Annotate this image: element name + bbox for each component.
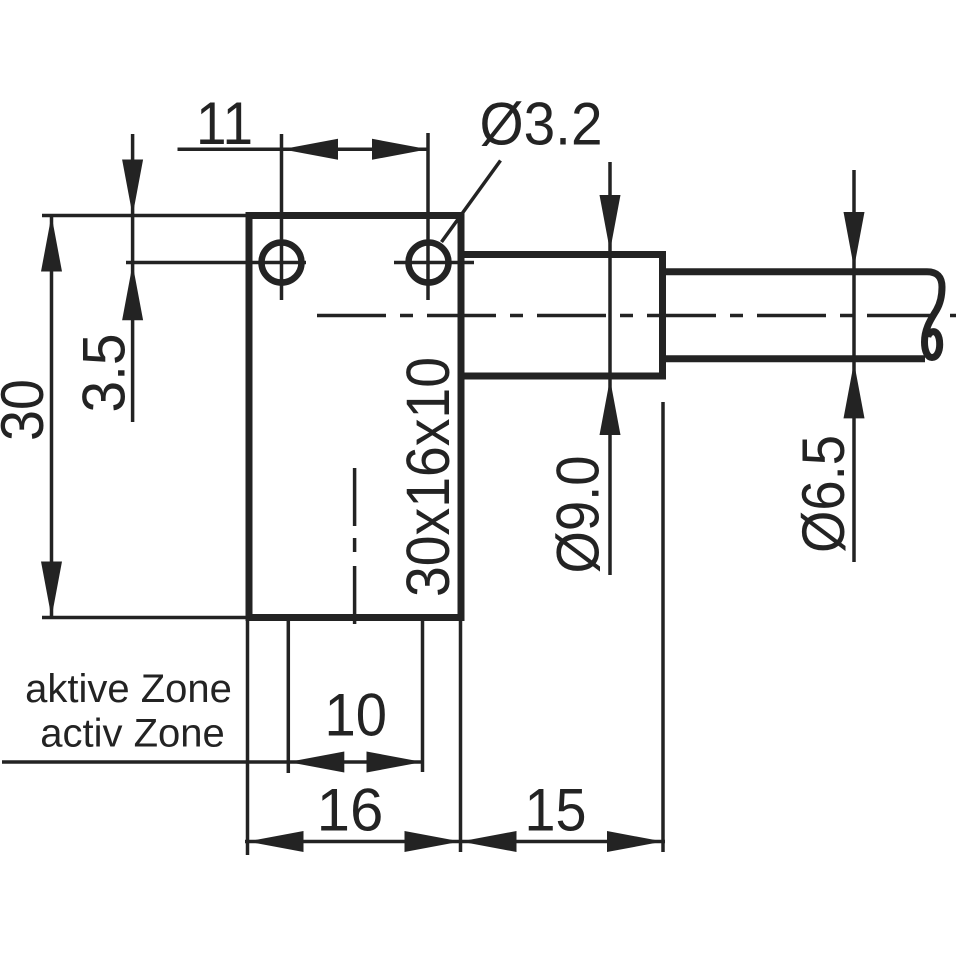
svg-text:Ø6.5: Ø6.5: [790, 435, 857, 553]
svg-text:aktive Zone: aktive Zone: [25, 667, 232, 711]
svg-text:10: 10: [325, 682, 388, 749]
svg-text:30: 30: [0, 379, 56, 441]
svg-text:15: 15: [525, 777, 587, 844]
svg-text:16: 16: [317, 777, 384, 844]
svg-text:11: 11: [196, 90, 253, 157]
svg-text:Ø9.0: Ø9.0: [545, 456, 612, 574]
svg-text:activ Zone: activ Zone: [40, 711, 225, 755]
svg-text:3.5: 3.5: [71, 334, 138, 413]
svg-text:Ø3.2: Ø3.2: [480, 91, 603, 158]
svg-text:30x16x10: 30x16x10: [394, 357, 463, 597]
